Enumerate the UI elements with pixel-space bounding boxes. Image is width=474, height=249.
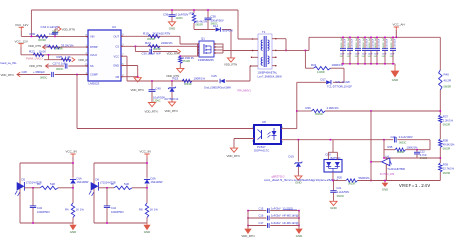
svg-text:0603C: 0603C <box>399 141 407 144</box>
svg-text:VDD_RTN: VDD_RTN <box>29 64 42 68</box>
resistor R4 1K 1% <box>65 203 84 223</box>
svg-text:HF-MS 1kV@: HF-MS 1kV@ <box>283 214 299 218</box>
svg-text:D5: D5 <box>22 177 26 181</box>
resistor R7 51R <box>111 182 132 189</box>
wire Q1 left pins bar <box>197 43 199 56</box>
resistor R34 snubber <box>311 63 344 74</box>
svg-text:0603C: 0603C <box>56 68 64 71</box>
svg-text:R23: R23 <box>173 76 179 80</box>
svg-text:LM5023: LM5023 <box>89 82 100 86</box>
wire compensation verticals <box>384 140 430 158</box>
svg-text:TCL-DTT-DRL10-02F: TCL-DTT-DRL10-02F <box>327 85 352 89</box>
svg-text:R36: R36 <box>306 106 312 110</box>
zener diode D18 ACT5DC10 <box>165 81 179 102</box>
svg-text:1206C: 1206C <box>153 98 161 102</box>
svg-text:0603R: 0603R <box>397 151 405 154</box>
svg-text:0603C: 0603C <box>420 157 428 160</box>
svg-text:baud_La_3SL: baud_La_3SL <box>1 61 18 65</box>
svg-text:R3: R3 <box>37 182 41 186</box>
svg-text:VDD_RTN: VDD_RTN <box>1 73 14 77</box>
svg-text:D1A: D1A <box>77 176 82 180</box>
svg-text:RT/BP: RT/BP <box>90 45 98 49</box>
svg-text:51R: 51R <box>50 182 55 186</box>
capacitor C26 0.1uF/100V <box>391 135 413 145</box>
wire feedback rail y111 <box>297 110 441 112</box>
svg-text:0603R: 0603R <box>38 38 46 42</box>
shunt regulator U4 TL431 <box>380 155 405 181</box>
wire top loop (A) <box>20 162 74 223</box>
power flag VDD_RTN at opto <box>227 148 240 159</box>
svg-text:VDD_RTN: VDD_RTN <box>227 154 240 158</box>
Y-capacitor block rows <box>247 206 300 228</box>
svg-text:GND: GND <box>392 78 398 82</box>
power flag VDD_RTN at GND/FB <box>131 77 144 92</box>
wire CS row <box>121 46 200 57</box>
svg-text:40.2R: 40.2R <box>444 78 451 82</box>
svg-text:1000P/50V: 1000P/50V <box>111 210 124 214</box>
svg-text:C45 10uF: C45 10uF <box>352 38 354 48</box>
svg-text:R34: R34 <box>311 63 317 67</box>
svg-text:1.2K/1%: 1.2K/1% <box>443 118 454 122</box>
svg-text:R30: R30 <box>30 32 36 36</box>
svg-text:VREF=1.24V: VREF=1.24V <box>399 183 431 189</box>
power flag VCC_12V (row 1) <box>15 23 28 30</box>
svg-text:OUT: OUT <box>114 34 120 38</box>
svg-text:2512R: 2512R <box>183 59 191 63</box>
wire secondary pin1 tie <box>276 39 286 51</box>
diode D1A 1N4148W <box>70 176 89 203</box>
ground GND (A) <box>69 223 76 234</box>
svg-text:0603R: 0603R <box>184 82 192 86</box>
text VREF <box>399 183 431 189</box>
svg-text:0805C 1uF: 0805C 1uF <box>341 37 343 48</box>
resistor R24 240R/1% <box>145 41 173 51</box>
svg-text:0805C 1uF: 0805C 1uF <box>356 37 358 48</box>
svg-text:D6: D6 <box>96 177 100 181</box>
wire VCC_12V to VIN row <box>21 30 88 36</box>
svg-text:PRI_MMV1: PRI_MMV1 <box>238 89 252 93</box>
wire snubber diode row <box>296 82 344 128</box>
power flag VCC_9V (B) <box>140 150 152 157</box>
resistor R23 100R/1% <box>173 76 206 85</box>
svg-text:1nF/2kV: 1nF/2kV <box>271 206 281 210</box>
svg-text:C28: C28 <box>22 70 28 74</box>
resistor R25 1.3K/1% <box>57 55 72 62</box>
svg-text:0805C: 0805C <box>40 76 48 79</box>
power flag VDD_RTN (row 5) <box>29 64 49 68</box>
svg-text:0603R: 0603R <box>348 182 356 185</box>
wire BAT54C top pins <box>328 140 337 160</box>
svg-text:smt_dio2.5_5mm-smd/SelfAlignOp: smt_dio2.5_5mm-smd/SelfAlignOpto+2MH-2 <box>264 179 339 182</box>
capacitor C38 100uF/50V <box>205 10 224 30</box>
capacitor C30 100pF NP branch <box>135 46 177 55</box>
zener diode D19 <box>289 140 303 176</box>
svg-text:1.3K: 1.3K <box>65 55 71 59</box>
svg-text:CS: CS <box>115 44 119 48</box>
svg-text:33.2K/1%: 33.2K/1% <box>61 43 74 47</box>
svg-text:VCC_12V: VCC_12V <box>15 39 28 43</box>
wire ref row3 <box>383 157 440 159</box>
wire bottom loop (A) <box>20 222 73 224</box>
resistor R20 562R/1% <box>337 176 370 186</box>
svg-text:VDD_RTN: VDD_RTN <box>62 27 75 31</box>
wire VCC_12V to UVLO divider <box>21 47 88 55</box>
capacitor C28 6800pF on COMP row <box>17 70 88 79</box>
transformer T1 <box>250 30 282 79</box>
svg-text:D15: D15 <box>212 74 218 78</box>
svg-text:100R/1%: 100R/1% <box>194 76 206 80</box>
power flag VDD_RTN at C30 <box>167 49 181 55</box>
wire capacitor bank bottom rail <box>341 63 395 66</box>
svg-text:0805R: 0805R <box>444 84 452 88</box>
svg-text:COMP: COMP <box>90 73 98 77</box>
svg-text:4.99K/1%: 4.99K/1% <box>327 106 340 110</box>
svg-text:T1: T1 <box>262 30 266 34</box>
wire RT row <box>43 46 89 48</box>
wire GND pin <box>121 66 138 77</box>
wire VCC pin to decoupling row <box>121 56 127 81</box>
svg-text:GND: GND <box>113 64 119 68</box>
svg-text:C16: C16 <box>259 214 264 218</box>
diode D15 <box>212 74 225 83</box>
resistor R26 sense 0.15R PL <box>179 56 195 63</box>
svg-text:R20: R20 <box>337 176 342 180</box>
diode D2A 1N4148W <box>144 176 163 203</box>
net label PRI_MMV1 <box>238 89 252 93</box>
power flag VDD_RTN (row 4) <box>72 58 92 63</box>
resistor R35 100K/1% <box>388 145 419 154</box>
svg-text:C34: C34 <box>41 25 47 29</box>
svg-text:C40: C40 <box>156 86 162 90</box>
resistor R40 40.2R <box>439 37 452 115</box>
net alias Gnd_(SMD)PGnd-2MH <box>204 86 231 90</box>
resistor R8 1K 1% <box>139 203 158 223</box>
wire bias row y81 <box>127 66 258 82</box>
svg-text:0603R: 0603R <box>153 47 161 51</box>
svg-text:C45 10uF: C45 10uF <box>395 38 397 48</box>
svg-text:C22: C22 <box>420 149 425 153</box>
svg-text:FDMS86255: FDMS86255 <box>198 58 214 62</box>
svg-text:UVLO: UVLO <box>90 53 97 57</box>
op-amp controller U3 LM5023 <box>85 25 125 85</box>
svg-text:1nF/2kV: 1nF/2kV <box>271 221 281 225</box>
diode D20 BAT54C <box>324 153 342 172</box>
resistor R21 33.2K/1% <box>45 43 74 50</box>
svg-text:0603R: 0603R <box>443 147 451 150</box>
svg-text:0.1uF/100V: 0.1uF/100V <box>399 135 413 139</box>
capacitor bank output <box>340 37 397 64</box>
wire bottom loop (B) <box>94 222 147 224</box>
capacitor C43 1000P/50V <box>30 188 50 223</box>
power flag VDD_RTN at C34 <box>58 27 75 32</box>
svg-text:0805C 1uF: 0805C 1uF <box>369 37 371 48</box>
svg-text:VDD_RTN: VDD_RTN <box>165 109 178 113</box>
svg-text:C21: C21 <box>336 186 341 190</box>
ground GND (B) <box>143 223 150 234</box>
wire opto anode riser <box>281 128 297 130</box>
svg-text:1206R: 1206R <box>317 70 325 74</box>
power flag VDD_RTN (row 6) <box>1 72 21 77</box>
svg-text:1.2uF/50V: 1.2uF/50V <box>337 190 350 194</box>
svg-text:0805C 1uF: 0805C 1uF <box>391 37 393 48</box>
svg-text:R8: R8 <box>139 207 143 211</box>
svg-text:VCC_9V: VCC_9V <box>66 150 78 154</box>
svg-text:Q1: Q1 <box>201 37 205 41</box>
svg-text:VIN: VIN <box>90 35 94 39</box>
svg-text:C15: C15 <box>259 206 264 210</box>
wire bias bottom row y180.5 <box>332 180 440 182</box>
diode D14 B0540W <box>213 24 233 32</box>
capacitor C34 0.1uF/25V <box>41 25 61 37</box>
svg-text:49.9K/1%: 49.9K/1% <box>443 142 455 146</box>
svg-text:TL431AIDTBR: TL431AIDTBR <box>387 167 405 171</box>
svg-text:C45 10uF: C45 10uF <box>345 38 347 48</box>
svg-text:R38: R38 <box>443 138 449 142</box>
svg-text:U3: U3 <box>112 25 116 29</box>
wire UVLO lower row <box>44 54 71 60</box>
svg-text:0603R: 0603R <box>196 24 204 27</box>
resistor R19 gate 2K/1% <box>143 32 170 42</box>
capacitor C27 0.1uF on SS row <box>46 62 89 71</box>
svg-text:1000P/50V: 1000P/50V <box>37 210 50 214</box>
resistor R7 86.4K/1% <box>190 10 208 30</box>
ground GND at zener D19 <box>295 175 302 184</box>
resistor R37 1.2K/1% <box>439 114 454 139</box>
svg-text:D14: D14 <box>213 24 219 28</box>
net label qBRZT01 at zener <box>272 174 285 178</box>
svg-text:R37: R37 <box>443 114 449 118</box>
svg-text:0603R: 0603R <box>55 47 63 51</box>
svg-text:R7: R7 <box>190 11 194 15</box>
power flag VDD_RTN (row 2) <box>28 44 46 49</box>
svg-text:VDD_RTN: VDD_RTN <box>167 52 180 56</box>
wire mid row (A) <box>24 187 73 189</box>
wire TL431 ref column <box>370 111 381 181</box>
capacitor C40 10uF/50V <box>149 81 166 102</box>
svg-text:GND: GND <box>144 230 150 234</box>
svg-text:0603R: 0603R <box>443 123 451 126</box>
svg-text:GND: GND <box>169 26 175 30</box>
svg-text:U4: U4 <box>385 155 389 159</box>
svg-text:GND: GND <box>70 230 76 234</box>
svg-text:22.7k/1%: 22.7k/1% <box>443 166 455 170</box>
svg-text:R25: R25 <box>57 55 63 59</box>
svg-text:1nF/2kV: 1nF/2kV <box>271 214 281 218</box>
transistor Q1 FDMS86255 <box>198 37 214 62</box>
svg-text:VDD_RTN: VDD_RTN <box>224 63 237 67</box>
svg-text:VDD_RTN: VDD_RTN <box>145 109 158 113</box>
ground GND at capacitor bank <box>391 66 399 82</box>
capacitor C22 4.7nF <box>414 149 427 160</box>
wire secondary output to rail <box>276 37 309 51</box>
power flag VDD_RTN at Y-cap block <box>241 229 254 238</box>
ground GND at C21 <box>330 201 337 210</box>
LED D5 <box>15 177 42 196</box>
svg-text:1K 1%: 1K 1% <box>76 207 85 211</box>
wire top loop (B) <box>94 162 148 223</box>
svg-text:562R/1%: 562R/1% <box>359 176 371 180</box>
capacitor C36 2.2uF/50V <box>163 10 189 21</box>
net stub off-page <box>1 61 18 65</box>
wire VCC_9V drop (A) <box>72 157 74 178</box>
footprint text smt_dio <box>264 179 339 182</box>
svg-text:1206C: 1206C <box>176 17 184 20</box>
wire mid row (B) <box>98 187 147 189</box>
svg-text:10.0K: 10.0K <box>39 50 47 54</box>
svg-text:0603C: 0603C <box>337 195 345 198</box>
svg-text:GND: GND <box>296 234 302 238</box>
svg-text:VDD_RTN: VDD_RTN <box>28 44 41 48</box>
optocoupler U8 PC817 <box>252 120 284 152</box>
wire VCC_9V drop (B) <box>146 157 148 178</box>
svg-text:C44: C44 <box>111 206 116 210</box>
ground GND at C36 <box>168 21 175 30</box>
svg-text:1K 1%: 1K 1% <box>150 207 159 211</box>
capacitor C44 1000P/50V <box>104 188 124 223</box>
svg-text:R40: R40 <box>444 72 450 76</box>
resistor R3 51R <box>37 182 58 189</box>
svg-text:0805C 1uF: 0805C 1uF <box>375 37 377 48</box>
svg-text:VDD_RTN: VDD_RTN <box>241 234 254 238</box>
svg-text:0805C 1uF: 0805C 1uF <box>363 37 365 48</box>
svg-text:1N4148W: 1N4148W <box>151 180 163 184</box>
wire VCC_12V rail up/top rail <box>31 10 258 39</box>
svg-text:2K/1%02 RTN: 2K/1%02 RTN <box>153 32 171 36</box>
svg-text:R19: R19 <box>143 32 149 36</box>
svg-text:C26: C26 <box>391 135 397 139</box>
wire COMP feedback drop to opto <box>76 74 254 129</box>
wire Q1 right pins to drain <box>214 43 258 53</box>
svg-text:100K/1%: 100K/1% <box>407 145 419 149</box>
svg-text:0805C 1uF: 0805C 1uF <box>348 37 350 48</box>
wire opto emitter to VDD_RTN <box>234 139 254 148</box>
svg-text:C36: C36 <box>163 12 169 16</box>
svg-text:La+7_5M8014_5MW: La+7_5M8014_5MW <box>258 74 283 78</box>
svg-text:0603R: 0603R <box>315 112 323 116</box>
power flag VCC_AH <box>393 23 405 38</box>
wire snubber left drop <box>305 50 344 82</box>
capacitor C21 1.2uF/50V <box>330 181 349 201</box>
power flag VDD_RTN at C40 <box>145 102 158 113</box>
svg-text:0603R: 0603R <box>443 172 451 175</box>
svg-text:100EP40H/ETAL: 100EP40H/ETAL <box>258 70 278 74</box>
svg-text:R35: R35 <box>388 145 393 149</box>
svg-text:VCC: VCC <box>114 54 120 58</box>
svg-text:D17: D17 <box>321 77 327 81</box>
wire BAT54C bottom to bias row <box>332 172 334 181</box>
diode D17 DAL-10-02F <box>321 77 353 88</box>
svg-text:KOTD3_182: KOTD3_182 <box>380 172 395 176</box>
svg-text:51R: 51R <box>124 182 129 186</box>
wire bias block bottom <box>171 9 231 57</box>
svg-text:C43: C43 <box>37 206 42 210</box>
resistor R39 22.7K/1% <box>439 162 455 180</box>
resistor R38 49.9K/1% <box>439 138 455 163</box>
svg-text:qBRZT01G: qBRZT01G <box>272 174 285 178</box>
svg-text:GND: GND <box>330 206 336 210</box>
power flag VCC_9V (A) <box>66 150 78 157</box>
svg-text:R22: R22 <box>29 50 35 54</box>
power flag VDD_RTN at zener D18 <box>165 102 178 113</box>
svg-text:R7: R7 <box>111 182 115 186</box>
ground GND at TL431 anode <box>382 181 389 192</box>
svg-text:VDD_RTN: VDD_RTN <box>131 88 144 92</box>
svg-text:+ 6800pF: + 6800pF <box>33 70 45 74</box>
svg-text:R4: R4 <box>65 207 69 211</box>
svg-text:R39: R39 <box>443 162 449 166</box>
svg-text:VCC_9V: VCC_9V <box>140 150 152 154</box>
resistor R22 10.0K/1% <box>29 50 46 57</box>
power flag VDD_RTN at D14 branch <box>224 58 237 67</box>
svg-text:ACT5DC10: ACT5DC10 <box>165 97 179 101</box>
power flag VCC_12V (row 3) <box>15 39 28 46</box>
resistor R30 100R <box>30 32 58 42</box>
svg-text:BAT54C: BAT54C <box>331 156 341 160</box>
svg-text:2.2uF/50V: 2.2uF/50V <box>176 12 189 16</box>
svg-text:C45 10uF: C45 10uF <box>360 38 362 48</box>
svg-text:D19: D19 <box>289 154 295 158</box>
svg-text:C45 10uF: C45 10uF <box>379 38 381 48</box>
resistor R36 4.99K/1% <box>306 106 340 116</box>
svg-text:HF-MS 1kV@: HF-MS 1kV@ <box>283 221 299 225</box>
svg-text:240R/1%: 240R/1% <box>161 41 173 45</box>
svg-text:0805C 1uF: 0805C 1uF <box>383 37 385 48</box>
svg-text:C30 100pF N/P: C30 100pF N/P <box>142 52 161 56</box>
svg-text:R21: R21 <box>45 43 51 47</box>
power flag VDD_RTN at sense resistor <box>166 63 184 78</box>
svg-text:D2A: D2A <box>151 176 156 180</box>
svg-text:1N4148W: 1N4148W <box>77 180 89 184</box>
wire compensation row2 <box>384 149 430 151</box>
svg-text:VCC_AH: VCC_AH <box>393 23 405 27</box>
LED D6 <box>89 177 116 196</box>
svg-text:U8: U8 <box>262 120 266 124</box>
svg-text:SS: SS <box>90 64 94 68</box>
svg-text:PWM_UVLO: PWM_UVLO <box>26 56 43 60</box>
svg-text:C45 10uF: C45 10uF <box>387 38 389 48</box>
net label PWM_UVLO <box>26 56 43 60</box>
svg-text:R24: R24 <box>145 41 151 45</box>
ground GND at Y-cap block <box>295 229 302 238</box>
svg-text:DAL-10-02F: DAL-10-02F <box>336 80 351 84</box>
svg-text:VCC_12V: VCC_12V <box>15 23 28 27</box>
svg-text:GND: GND <box>382 188 388 192</box>
wire VCC_AH top rail <box>309 36 440 38</box>
svg-text:Gnd_(SMD)PGnd-2MH: Gnd_(SMD)PGnd-2MH <box>204 86 231 90</box>
wire OUT to gate <box>121 36 198 44</box>
svg-text:B0540W: B0540W <box>223 28 234 32</box>
svg-text:DOP4-017C: DOP4-017C <box>254 149 269 153</box>
wire opto cathode feedback row y139.7 <box>281 139 430 141</box>
svg-text:FB: FB <box>116 75 120 79</box>
wire source rail <box>180 55 199 57</box>
wire FB pin <box>121 76 139 78</box>
svg-text:C27 0.1uF: C27 0.1uF <box>53 62 66 66</box>
svg-text:C17: C17 <box>259 221 264 225</box>
svg-text:C38: C38 <box>211 15 217 19</box>
